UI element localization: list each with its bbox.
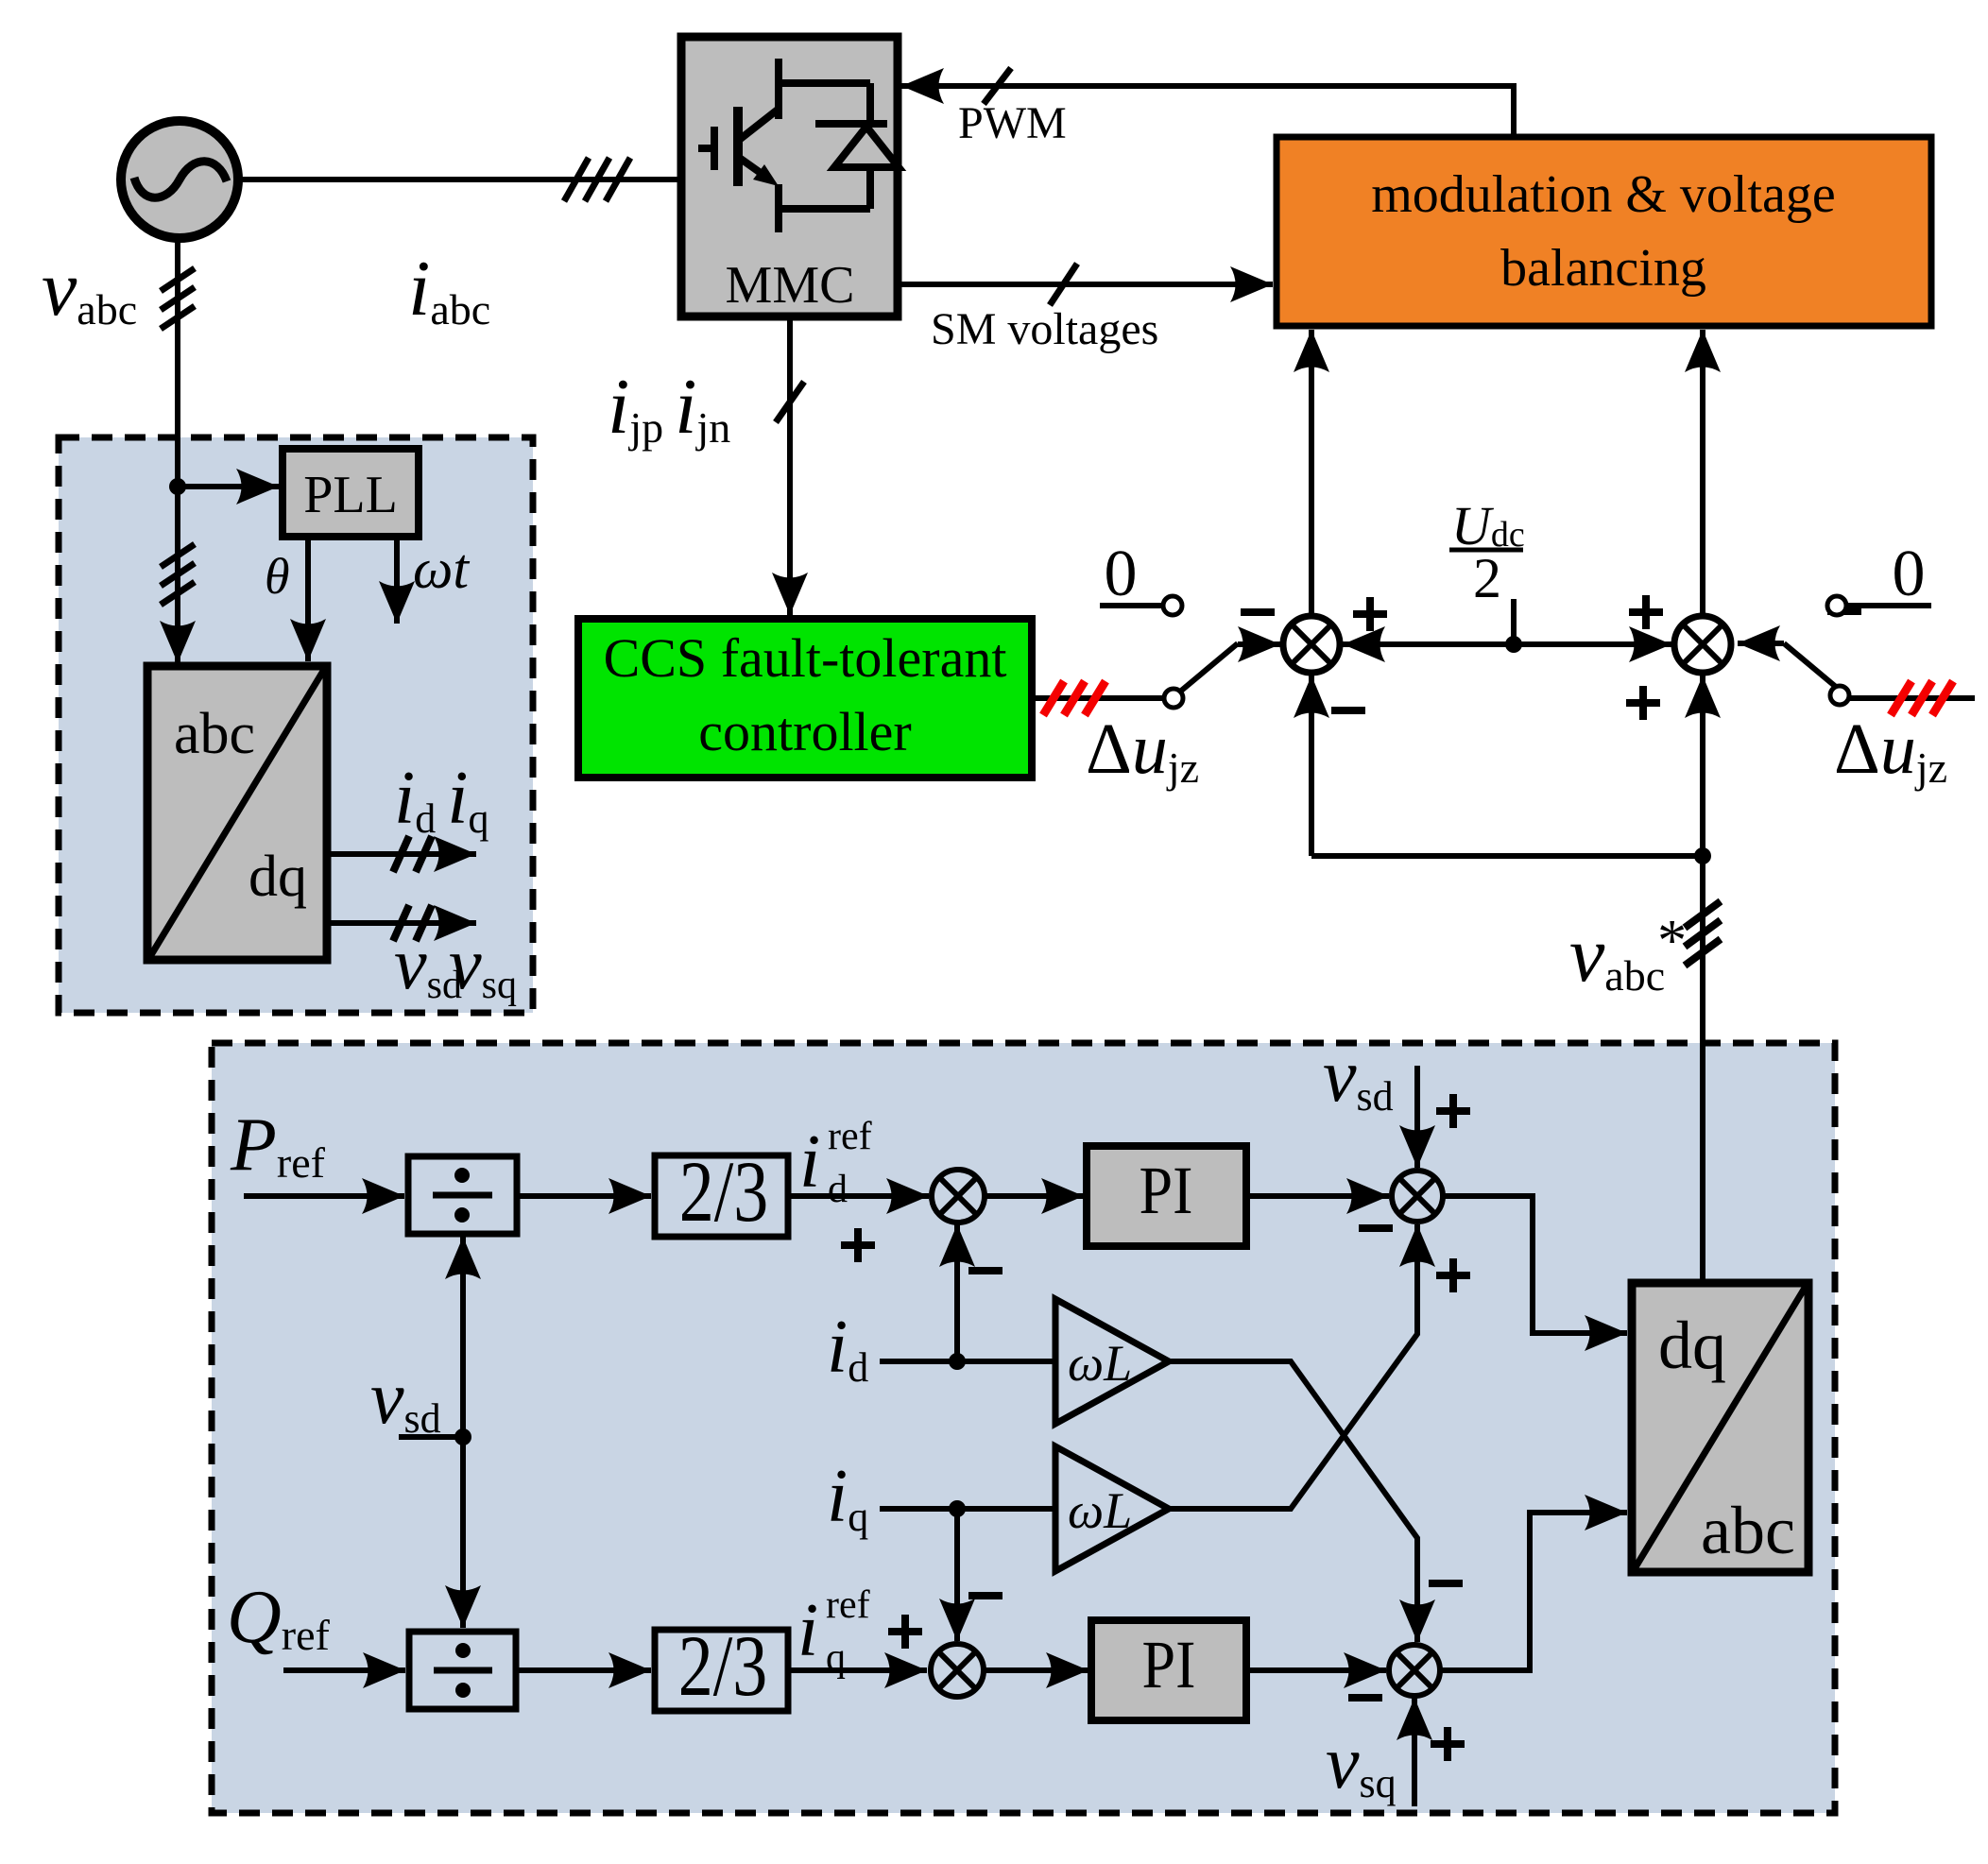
wire J3 to PI2 [984,1667,1088,1673]
svg-text:d: d [828,1168,848,1211]
wire v_sd into J2 [1414,1066,1420,1168]
wire: right junction up to modulation block [1700,330,1705,616]
minus sign [1241,608,1275,616]
svg-text:dq: dq [248,845,307,909]
svg-text:Δujz: Δujz [1834,710,1947,792]
svg-text:abc: abc [1701,1493,1795,1568]
svg-text:PLL: PLL [303,466,398,524]
MMC block [681,37,898,316]
theta wire [305,537,311,661]
svg-text:SM voltages: SM voltages [931,304,1158,354]
wire i_q [880,1506,1055,1512]
svg-text:q: q [826,1636,846,1680]
svg-text:vabc*: vabc* [1569,909,1687,1000]
svg-text:i: i [799,1120,820,1204]
svg-text:ωL: ωL [1068,1335,1132,1392]
wire i_d up into J1 [954,1224,960,1361]
wire i_q down into J3 [954,1509,960,1641]
wire divider to 2/3 [517,1193,651,1199]
svg-text:2/3: 2/3 [678,1617,768,1715]
svg-text:MMC: MMC [726,256,855,315]
plus sign lower-left of right junction [1626,686,1660,720]
minus sign below PI2 arrow [1348,1694,1382,1702]
2/3 block top [655,1155,788,1237]
svg-text:controller: controller [698,701,911,762]
wire: AC source to MMC [240,177,681,182]
junction dot on AC wire [169,478,186,495]
wire 2/3 to J3 [788,1667,927,1673]
wire into PLL [178,484,279,489]
minus sign below-right of left junction [1331,707,1365,714]
svg-text:PWM: PWM [958,98,1067,148]
summing junction left [1283,616,1340,673]
wire: CCS output [1032,695,1163,701]
phase slashes on v_abc* wire [1685,901,1721,966]
svg-text:PI: PI [1142,1627,1196,1702]
wire: feedback into left junction bottom [1309,675,1314,856]
svg-text:0: 0 [1893,538,1926,610]
wire omega-L top to J4 (cross-coupling) [1169,1361,1417,1642]
svg-text:ref: ref [828,1115,872,1158]
svg-text:PI: PI [1140,1153,1193,1228]
v_sd stub wire [399,1434,463,1440]
wire P_ref to divider [244,1193,404,1199]
summing junction J4 [1389,1645,1440,1696]
summing junction J1 [932,1170,985,1223]
summing junction J2 [1392,1171,1443,1222]
plus sign at J1 [841,1228,875,1262]
wire J2 output to dq/abc [1443,1196,1627,1333]
2/3 block bottom [655,1630,788,1711]
svg-text:dq: dq [1658,1308,1726,1383]
svg-text:0: 0 [1105,538,1138,610]
wire: AC source down to abc/dq [175,240,180,663]
U_dc/2 stub wire [1511,599,1517,644]
modulation & voltage balancing block [1277,137,1931,326]
switch lever left [1180,643,1238,692]
svg-text:abc: abc [174,702,255,766]
svg-text:ijpijn: ijpijn [608,363,730,452]
current control panel (dashed blue box) [212,1043,1835,1813]
minus sign upper-right of right junction [1827,607,1861,615]
svg-text:CCS fault-tolerant: CCS fault-tolerant [604,627,1007,689]
wire v_sd up into P divider [460,1237,466,1437]
summing junction J3 [931,1644,984,1697]
output wire i_d i_q [327,851,476,857]
minus sign below PI1 arrow [1359,1224,1393,1232]
svg-text:vabc: vabc [42,245,137,333]
phase slashes on vertical wire [161,268,195,329]
plus sign right of v_sd arrow [1436,1094,1470,1128]
right switch lever [1738,641,1784,646]
wire: v_abc* up into right junction [1700,675,1705,1283]
PI block 2 [1091,1620,1246,1720]
dq/abc block [1632,1283,1808,1572]
svg-text:i: i [797,1589,818,1672]
svg-text:ref: ref [826,1583,870,1627]
svg-text:modulation & voltage: modulation & voltage [1371,165,1835,224]
svg-text:ωL: ωL [1068,1482,1132,1539]
minus sign below i_q dot [968,1592,1003,1599]
PI block 1 [1087,1146,1246,1246]
plus sign [1353,597,1387,631]
wire divider to 2/3 bottom [516,1667,651,1673]
plus sign at J3 [888,1615,922,1649]
gain block omega-L top [1055,1299,1169,1424]
summing junction right [1674,616,1731,673]
wire v_sd down into Q divider [460,1437,466,1628]
PLL panel (dashed blue box) [59,437,533,1013]
omega-t wire [394,537,400,624]
gain block omega-L bottom [1055,1446,1169,1571]
svg-text:2/3: 2/3 [679,1143,769,1240]
switch pole circle [1164,689,1183,708]
svg-text:2: 2 [1473,547,1501,609]
wire: MMC down to CCS controller [787,316,793,615]
wires between junctions [1343,641,1514,647]
wire v_sq into J4 [1412,1698,1417,1806]
PWM feedback wire [901,86,1514,137]
svg-text:Δujz: Δujz [1086,710,1199,792]
wire PI1 to J2 [1246,1193,1389,1199]
divider block Q [409,1632,516,1709]
wire i_d [880,1359,1055,1364]
wire J4 output to dq/abc [1440,1513,1627,1670]
plus sign below J2 [1436,1258,1470,1292]
PLL block [283,449,419,537]
AC source V1 [121,121,238,238]
output wire v_sd v_sq [327,920,476,926]
wire: left junction up to modulation block [1309,330,1314,616]
wire omega-L bottom to J2 (cross-coupling) [1169,1224,1417,1509]
svg-text:ωt: ωt [413,538,470,600]
plus sign right of v_sq arrow [1431,1727,1465,1761]
red phase slashes [1043,681,1105,715]
0 contact right [1827,596,1846,615]
svg-text:balancing: balancing [1500,239,1706,298]
wire 2/3 to J1 [788,1193,929,1199]
svg-text:θ: θ [265,548,290,605]
abc/dq block [147,666,327,960]
wire: SM voltages MMC to modulation [898,282,1273,287]
divider block P [408,1156,517,1234]
plus sign upper-left of right junction [1629,595,1663,629]
svg-text:iabc: iabc [408,245,490,333]
CCS fault-tolerant controller block [578,619,1032,778]
wire Q_ref to divider [283,1667,405,1673]
wire PI2 to J4 [1246,1667,1386,1673]
wire from right Delta u_jz [1849,695,1975,701]
minus sign above J4 [1429,1580,1463,1587]
IGBT with diode inside MMC [698,59,899,232]
phase slashes on AC-MMC wire [564,158,630,201]
phase slashes inside PLL panel [161,544,195,605]
minus sign above i_d arrow [968,1267,1003,1274]
wire J1 to PI1 [985,1193,1084,1199]
